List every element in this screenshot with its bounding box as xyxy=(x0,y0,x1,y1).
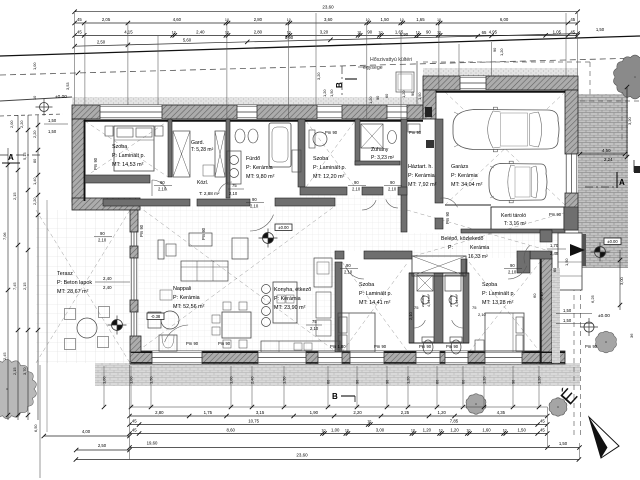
svg-text:1,20: 1,20 xyxy=(499,48,504,56)
svg-text:2,10: 2,10 xyxy=(388,187,397,192)
svg-text:1,50: 1,50 xyxy=(329,89,334,97)
svg-text:P: 3,23 m²: P: 3,23 m² xyxy=(371,155,394,161)
svg-text:2,20: 2,20 xyxy=(19,120,24,128)
svg-text:4,50: 4,50 xyxy=(602,148,611,153)
svg-text:10: 10 xyxy=(172,30,176,34)
svg-text:45: 45 xyxy=(132,428,137,433)
svg-text:10: 10 xyxy=(366,18,370,22)
svg-text:1,50: 1,50 xyxy=(559,441,568,446)
svg-text:T: 2,88 m²: T: 2,88 m² xyxy=(199,191,220,196)
svg-text:MT: 13,28 m²: MT: 13,28 m² xyxy=(482,300,514,306)
svg-text:2,00: 2,00 xyxy=(9,120,14,128)
svg-text:6,50: 6,50 xyxy=(33,424,38,432)
svg-text:1,65: 1,65 xyxy=(416,17,425,22)
svg-text:Pm 90: Pm 90 xyxy=(139,224,144,237)
svg-text:5,60: 5,60 xyxy=(183,37,192,42)
svg-text:2,20: 2,20 xyxy=(32,197,37,205)
svg-text:Pm 90: Pm 90 xyxy=(93,157,98,170)
svg-text:1,50: 1,50 xyxy=(564,258,569,266)
svg-text:10: 10 xyxy=(378,30,382,34)
svg-text:1,05: 1,05 xyxy=(553,29,562,34)
svg-text:10: 10 xyxy=(411,429,415,433)
svg-text:1,00: 1,00 xyxy=(32,62,37,70)
svg-text:Pm 90: Pm 90 xyxy=(585,344,598,349)
svg-text:3,15: 3,15 xyxy=(256,410,265,415)
svg-text:Kerti tároló: Kerti tároló xyxy=(501,213,526,219)
svg-text:Pm 90: Pm 90 xyxy=(201,227,206,240)
svg-text:2,40: 2,40 xyxy=(196,29,205,34)
svg-text:2,10: 2,10 xyxy=(352,187,361,192)
svg-text:1,50: 1,50 xyxy=(517,428,526,433)
svg-text:Háztart. h.: Háztart. h. xyxy=(408,164,433,170)
svg-text:10: 10 xyxy=(503,429,507,433)
svg-text:2,10: 2,10 xyxy=(158,187,167,192)
svg-text:1,00: 1,00 xyxy=(102,376,107,384)
svg-text:2,15: 2,15 xyxy=(12,367,17,375)
svg-text:MT: 14,53 m²: MT: 14,53 m² xyxy=(112,162,144,168)
svg-text:36: 36 xyxy=(629,333,634,338)
svg-text:zuhany: zuhany xyxy=(449,295,453,307)
svg-text:10,75: 10,75 xyxy=(248,419,259,424)
svg-text:3,20: 3,20 xyxy=(316,72,321,80)
svg-text:Pm 90: Pm 90 xyxy=(374,344,387,349)
svg-text:B: B xyxy=(332,392,338,401)
svg-text:2,40: 2,40 xyxy=(103,276,112,281)
svg-text:3,00: 3,00 xyxy=(376,428,385,433)
svg-text:1,20: 1,20 xyxy=(438,410,447,415)
svg-text:2,10: 2,10 xyxy=(508,270,517,275)
svg-text:Garázs: Garázs xyxy=(451,164,469,170)
svg-text:1,00: 1,00 xyxy=(229,376,234,384)
svg-text:5,15: 5,15 xyxy=(22,152,27,160)
svg-text:10: 10 xyxy=(321,429,325,433)
svg-text:P: Beton lapok: P: Beton lapok xyxy=(57,280,92,286)
svg-text:3,20: 3,20 xyxy=(627,116,632,125)
svg-text:Terasz: Terasz xyxy=(57,271,73,277)
svg-text:P: Laminált p.: P: Laminált p. xyxy=(482,291,515,297)
svg-text:1,50: 1,50 xyxy=(596,27,605,32)
svg-text:Zuhany: Zuhany xyxy=(371,147,389,153)
svg-text:1,00: 1,00 xyxy=(331,428,340,433)
svg-text:3,53: 3,53 xyxy=(65,82,70,90)
svg-text:2,20: 2,20 xyxy=(32,130,37,138)
svg-text:1,20: 1,20 xyxy=(423,428,432,433)
svg-text:75: 75 xyxy=(472,305,477,310)
svg-text:90: 90 xyxy=(367,29,372,34)
svg-text:Pm 90: Pm 90 xyxy=(446,344,459,349)
svg-text:65: 65 xyxy=(482,30,487,35)
svg-text:1,40: 1,40 xyxy=(32,177,37,185)
svg-text:±0.00: ±0.00 xyxy=(55,94,67,100)
svg-text:90: 90 xyxy=(100,231,105,236)
svg-text:6,25: 6,25 xyxy=(590,294,595,303)
svg-text:P: Kerámia: P: Kerámia xyxy=(408,173,435,179)
svg-text:4,35: 4,35 xyxy=(497,410,506,415)
svg-text:2,40: 2,40 xyxy=(250,376,255,384)
svg-text:Pm 90: Pm 90 xyxy=(186,341,199,346)
svg-text:Szoba: Szoba xyxy=(313,156,328,162)
svg-text:Pm 90: Pm 90 xyxy=(409,130,422,135)
svg-text:4,44 m²: 4,44 m² xyxy=(427,293,431,307)
svg-text:2,45: 2,45 xyxy=(2,352,7,360)
svg-text:45: 45 xyxy=(77,29,82,34)
svg-text:10: 10 xyxy=(466,429,470,433)
svg-text:1,50: 1,50 xyxy=(563,308,572,313)
svg-text:1,75: 1,75 xyxy=(204,410,213,415)
svg-text:1,50: 1,50 xyxy=(48,118,57,123)
svg-text:2,10: 2,10 xyxy=(250,204,259,209)
svg-text:45: 45 xyxy=(540,419,545,424)
svg-text:90: 90 xyxy=(354,180,359,185)
svg-text:A: A xyxy=(8,153,14,162)
svg-text:45: 45 xyxy=(77,17,82,22)
svg-text:Nappali: Nappali xyxy=(173,286,191,292)
svg-text:10: 10 xyxy=(439,429,443,433)
svg-text:Konyha, étkező: Konyha, étkező xyxy=(274,287,311,293)
svg-text:Gard.: Gard. xyxy=(191,140,204,146)
svg-text:19,60: 19,60 xyxy=(147,441,158,446)
svg-text:1,20: 1,20 xyxy=(537,376,542,384)
svg-text:MT: 34,04 m²: MT: 34,04 m² xyxy=(451,182,483,188)
svg-text:1,50: 1,50 xyxy=(563,318,572,323)
svg-text:4,95: 4,95 xyxy=(489,29,498,34)
svg-text:±0.00: ±0.00 xyxy=(278,225,289,230)
svg-text:2,10: 2,10 xyxy=(408,311,413,320)
svg-text:90: 90 xyxy=(510,263,515,268)
svg-text:10: 10 xyxy=(367,420,371,424)
svg-text:Pm 90: Pm 90 xyxy=(419,344,432,349)
svg-text:2,10: 2,10 xyxy=(310,326,319,331)
svg-text:1,20: 1,20 xyxy=(482,376,487,384)
svg-text:P: Kerámia: P: Kerámia xyxy=(246,165,273,171)
svg-text:1,20: 1,20 xyxy=(401,90,406,98)
svg-text:3,60: 3,60 xyxy=(324,17,333,22)
svg-text:10: 10 xyxy=(357,30,361,34)
svg-text:23,60: 23,60 xyxy=(296,453,308,458)
svg-text:23,60: 23,60 xyxy=(322,5,334,10)
svg-text:Közl.: Közl. xyxy=(197,180,208,186)
svg-text:2,80: 2,80 xyxy=(155,410,164,415)
svg-text:16,33 m²: 16,33 m² xyxy=(468,254,488,260)
svg-text:T: 3,16 m²: T: 3,16 m² xyxy=(504,221,527,227)
svg-text:Belépő, közlekedő: Belépő, közlekedő xyxy=(441,236,484,242)
svg-text:B: B xyxy=(335,82,344,88)
svg-text:MT: 28,67 m²: MT: 28,67 m² xyxy=(57,289,89,295)
svg-text:90: 90 xyxy=(252,197,257,202)
svg-text:1,20: 1,20 xyxy=(322,89,327,97)
svg-text:P: Laminált p.: P: Laminált p. xyxy=(313,165,346,171)
svg-text:A: A xyxy=(619,178,625,187)
svg-text:4,00: 4,00 xyxy=(82,429,91,434)
svg-text:2,10: 2,10 xyxy=(98,238,107,243)
svg-text:MT: 52,56 m²: MT: 52,56 m² xyxy=(173,304,205,310)
svg-text:Szoba: Szoba xyxy=(359,282,374,288)
svg-text:Pm 90: Pm 90 xyxy=(549,212,562,217)
svg-text:1,70: 1,70 xyxy=(550,243,559,248)
svg-text:MT: 7,92 m²: MT: 7,92 m² xyxy=(408,182,437,188)
svg-text:3,70: 3,70 xyxy=(22,367,27,375)
svg-text:1,50: 1,50 xyxy=(417,92,422,100)
svg-text:2,10: 2,10 xyxy=(344,270,353,275)
svg-text:Fürdő: Fürdő xyxy=(246,156,260,162)
svg-text:2,10: 2,10 xyxy=(478,312,487,317)
svg-text:1,50: 1,50 xyxy=(282,376,287,384)
svg-text:4,60: 4,60 xyxy=(173,17,182,22)
svg-text:P: Laminált p.: P: Laminált p. xyxy=(359,291,392,297)
svg-text:2,40: 2,40 xyxy=(103,285,112,290)
svg-text:7,06: 7,06 xyxy=(2,232,7,240)
svg-text:P:: P: xyxy=(448,245,453,251)
svg-text:egysége: egysége xyxy=(363,65,383,71)
svg-text:2,80: 2,80 xyxy=(254,29,263,34)
svg-text:1,50: 1,50 xyxy=(381,17,390,22)
svg-text:10: 10 xyxy=(225,18,229,22)
svg-text:2,05: 2,05 xyxy=(102,17,111,22)
svg-text:2,10: 2,10 xyxy=(539,291,544,300)
svg-text:Szoba: Szoba xyxy=(112,144,127,150)
svg-text:10: 10 xyxy=(437,18,441,22)
svg-text:T: 5,28 m²: T: 5,28 m² xyxy=(191,147,214,153)
svg-text:MT: 23,90 m²: MT: 23,90 m² xyxy=(274,305,306,311)
svg-text:P: Kerámia: P: Kerámia xyxy=(274,296,301,302)
svg-text:45: 45 xyxy=(132,419,137,424)
svg-text:P: Laminált p.: P: Laminált p. xyxy=(112,153,145,159)
svg-text:1,60: 1,60 xyxy=(482,428,491,433)
svg-text:2,24: 2,24 xyxy=(604,157,613,162)
svg-text:8,60: 8,60 xyxy=(227,428,236,433)
svg-text:1,20: 1,20 xyxy=(450,428,459,433)
svg-text:2,50: 2,50 xyxy=(98,443,107,448)
svg-text:2,20: 2,20 xyxy=(353,410,362,415)
svg-text:2,40: 2,40 xyxy=(550,251,559,256)
svg-text:P: Kerámia: P: Kerámia xyxy=(451,173,478,179)
svg-text:Pm 90: Pm 90 xyxy=(218,341,231,346)
svg-text:1,20: 1,20 xyxy=(368,96,373,104)
svg-text:Szoba: Szoba xyxy=(482,282,497,288)
svg-text:90: 90 xyxy=(160,180,165,185)
svg-text:75: 75 xyxy=(312,319,317,324)
svg-text:90: 90 xyxy=(390,180,395,185)
svg-text:2,10: 2,10 xyxy=(229,191,238,196)
svg-text:Kerámia: Kerámia xyxy=(470,245,489,251)
svg-text:10: 10 xyxy=(287,18,291,22)
svg-text:2,15: 2,15 xyxy=(12,192,17,200)
svg-text:45: 45 xyxy=(570,29,575,34)
svg-text:Hőszivattyú kültéri: Hőszivattyú kültéri xyxy=(370,57,412,63)
svg-text:MT: 14,41 m²: MT: 14,41 m² xyxy=(359,300,391,306)
svg-text:4,44 m²: 4,44 m² xyxy=(455,293,459,307)
svg-text:75: 75 xyxy=(232,183,237,188)
svg-text:1,50: 1,50 xyxy=(149,376,154,384)
svg-text:1,20: 1,20 xyxy=(406,376,411,384)
svg-text:2,25: 2,25 xyxy=(401,410,410,415)
svg-text:±0.00: ±0.00 xyxy=(607,239,618,244)
svg-text:3,20: 3,20 xyxy=(320,29,329,34)
svg-text:7,45: 7,45 xyxy=(12,282,17,290)
svg-text:MT: 9,80 m²: MT: 9,80 m² xyxy=(246,174,275,180)
svg-text:1,65: 1,65 xyxy=(395,29,404,34)
svg-text:2,80: 2,80 xyxy=(254,17,263,22)
svg-text:7,85: 7,85 xyxy=(450,419,459,424)
svg-text:Pm 90: Pm 90 xyxy=(445,211,450,224)
svg-text:90: 90 xyxy=(346,263,351,268)
svg-text:10: 10 xyxy=(400,18,404,22)
svg-text:±0.00: ±0.00 xyxy=(598,313,610,319)
svg-text:1,90: 1,90 xyxy=(310,410,319,415)
svg-text:45: 45 xyxy=(570,17,575,22)
svg-text:zuhany: zuhany xyxy=(421,295,425,307)
svg-text:MT: 12,20 m²: MT: 12,20 m² xyxy=(313,174,345,180)
svg-text:Pm 1,80: Pm 1,80 xyxy=(330,344,346,349)
svg-text:2,50: 2,50 xyxy=(97,40,106,45)
svg-text:4,15: 4,15 xyxy=(124,29,133,34)
svg-text:2,15: 2,15 xyxy=(22,282,27,290)
svg-text:-0.38: -0.38 xyxy=(151,314,161,319)
svg-text:P: Kerámia: P: Kerámia xyxy=(173,295,200,301)
svg-text:6,00: 6,00 xyxy=(500,17,509,22)
svg-text:90: 90 xyxy=(426,29,431,34)
svg-text:75: 75 xyxy=(414,305,419,310)
svg-text:1,50: 1,50 xyxy=(48,129,57,134)
svg-text:10: 10 xyxy=(416,30,420,34)
svg-text:60: 60 xyxy=(532,293,537,298)
svg-text:10: 10 xyxy=(345,429,349,433)
svg-text:Pm 90: Pm 90 xyxy=(325,130,338,135)
svg-text:45: 45 xyxy=(540,428,545,433)
